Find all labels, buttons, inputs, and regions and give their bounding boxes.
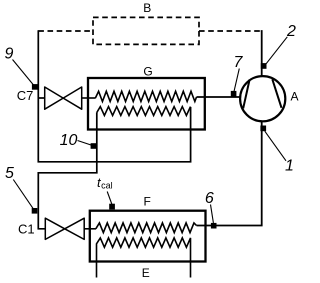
leader 5 — [13, 180, 33, 209]
expansion valve C7 — [45, 87, 82, 109]
wire: compressor discharge down and across to F — [197, 121, 262, 226]
leader 7 — [234, 69, 239, 92]
leader 9 — [13, 60, 34, 86]
wire: valve C1 to F coil entry — [84, 228, 97, 230]
svg-text:10: 10 — [60, 132, 78, 149]
svg-text:7: 7 — [234, 54, 244, 71]
node 6 — [211, 223, 217, 229]
leader 2 — [266, 37, 288, 64]
node 5 — [32, 208, 38, 214]
svg-text:5: 5 — [5, 165, 14, 182]
svg-text:G: G — [143, 65, 152, 79]
leader t_cal — [107, 192, 112, 205]
node 9 — [32, 84, 38, 90]
svg-text:6: 6 — [205, 190, 214, 207]
wire: left riser down, across to G coil right drop — [38, 30, 190, 162]
wire: stub from left riser to valve C7 — [38, 97, 45, 99]
svg-text:C1: C1 — [18, 222, 35, 237]
expansion valve C1 — [45, 218, 84, 239]
wire: valve C7 to G coil entry — [81, 97, 95, 99]
leader 6 — [211, 205, 214, 223]
wire: dashed line from left riser to box B — [38, 30, 93, 32]
svg-text:2: 2 — [286, 23, 296, 40]
heat exchanger G box — [88, 78, 205, 130]
node 1 — [260, 126, 266, 132]
leader 1 — [265, 131, 286, 161]
wire: G coil left drop down through node 10, across and down to valve C1 — [38, 113, 97, 229]
dashed enclosure B — [93, 17, 199, 44]
compressor riser top with corner from dashed line — [261, 31, 262, 76]
node 10 — [91, 143, 97, 149]
F coil row 2 zigzag with drops to source E — [97, 238, 191, 278]
compressor A — [240, 76, 285, 121]
wire: G coil exit to compressor suction — [197, 96, 241, 98]
wire: dashed line from box B to compressor riser — [199, 30, 261, 32]
svg-text:C7: C7 — [17, 88, 34, 103]
svg-text:1: 1 — [285, 158, 294, 175]
svg-text:B: B — [143, 1, 151, 15]
G coil row 2 zigzag — [97, 107, 191, 116]
node 7 — [231, 91, 237, 97]
svg-text:9: 9 — [5, 45, 14, 62]
F coil row 1 zigzag — [96, 223, 197, 233]
svg-text:F: F — [144, 194, 151, 208]
node 2 — [261, 63, 267, 69]
svg-text:E: E — [142, 266, 150, 280]
evaporator F box — [90, 211, 206, 262]
svg-text:A: A — [290, 89, 298, 103]
leader 10 — [78, 141, 92, 146]
G coil row 1 zigzag — [95, 91, 196, 101]
node t_cal on top of F — [109, 204, 115, 210]
